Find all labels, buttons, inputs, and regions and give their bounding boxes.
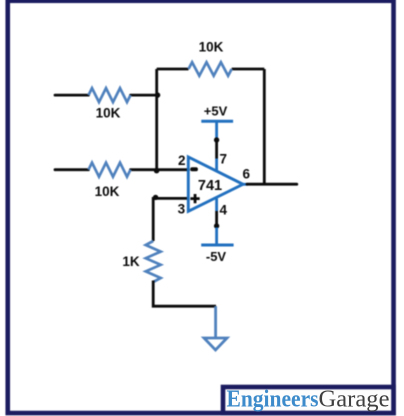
node A junction dot <box>155 92 160 97</box>
node C junction dot (pin3 / 1K) <box>153 195 158 200</box>
svg-text:+5V: +5V <box>204 104 228 119</box>
resistor R3 10K (input 2) <box>89 163 131 177</box>
pin 4 junction dot <box>214 223 219 228</box>
wire: below 1K down then right to ground <box>153 281 216 307</box>
logo box <box>223 387 394 413</box>
plus sign (pin 3 input) <box>190 194 199 203</box>
-5V supply bar <box>201 244 233 247</box>
svg-text:-5V: -5V <box>206 249 227 264</box>
node B junction dot <box>154 168 159 173</box>
svg-text:Garage: Garage <box>319 387 390 413</box>
op-amp U1 triangle <box>188 157 243 211</box>
minus sign (pin 2 input) <box>190 167 198 171</box>
pin 7 wire black <box>215 139 218 159</box>
svg-text:2: 2 <box>178 153 186 168</box>
resistor R4 1K <box>146 241 161 282</box>
+5V lead blue upper <box>215 121 218 139</box>
wire: vertical node A to node B (x=156.5) <box>155 69 158 170</box>
pin 4 wire black <box>215 211 218 228</box>
resistor R1 10K (input 1) <box>89 88 131 102</box>
svg-text:10K: 10K <box>95 184 120 199</box>
svg-text:10K: 10K <box>96 106 121 121</box>
wire: pin 3 horizontal <box>153 197 188 200</box>
ground symbol <box>204 338 227 350</box>
svg-text:4: 4 <box>220 203 228 218</box>
ground lead (blue) <box>214 306 217 338</box>
svg-text:6: 6 <box>243 167 251 182</box>
svg-text:Engineers: Engineers <box>227 387 319 413</box>
wire: output horizontal <box>247 183 297 186</box>
pin 7 blue stub <box>215 159 218 172</box>
svg-text:1K: 1K <box>122 254 140 269</box>
wire: feedback top horizontal <box>157 68 265 71</box>
wire: vertical down to 1K <box>152 197 155 241</box>
output blue stub (pin 6) <box>243 183 248 186</box>
+5V supply bar <box>201 120 233 123</box>
svg-text:7: 7 <box>220 152 228 167</box>
logo text EngineersGarage <box>227 387 390 413</box>
pin 7 junction dot <box>214 137 219 142</box>
-5V lead blue lower <box>215 228 218 246</box>
wire: feedback right vertical down to output <box>263 69 266 184</box>
wire: input 1 horizontal to node A <box>55 94 158 97</box>
wire: input 2 horizontal to pin 2 <box>55 168 189 171</box>
svg-text:10K: 10K <box>199 40 224 55</box>
svg-text:741: 741 <box>198 178 222 194</box>
resistor R2 10K (feedback) <box>189 62 232 76</box>
pin 4 blue stub <box>215 199 218 212</box>
svg-text:3: 3 <box>178 202 186 217</box>
